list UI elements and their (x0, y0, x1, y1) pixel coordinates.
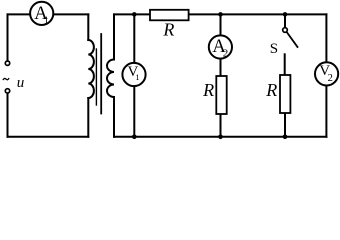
ammeter A1 (30, 2, 53, 25)
wire right-circuit top rail (114, 13, 326, 15)
svg-text:R: R (202, 80, 214, 100)
wire V2 right branch (325, 14, 327, 136)
transformer core line 1 (95, 49, 97, 105)
voltmeter V1 (122, 63, 145, 86)
transformer primary coil L1 (88, 40, 94, 98)
svg-text:R: R (265, 80, 277, 100)
wire S branch lower lead (284, 114, 286, 137)
wire S branch upper lead (284, 14, 286, 27)
wire left-loop right side upper segment (87, 14, 89, 40)
ammeter A2 (209, 35, 232, 58)
wire left-loop top rail (8, 13, 89, 15)
node dot top S (283, 12, 288, 17)
transformer core line 2 (100, 34, 102, 114)
switch S pivot (283, 28, 288, 33)
svg-text:2: 2 (223, 48, 229, 60)
wire left-loop left side upper segment (7, 14, 9, 60)
node dot bottom A2 (218, 135, 223, 140)
svg-text:1: 1 (135, 72, 139, 82)
source terminal lower (5, 89, 9, 93)
node dot bottom V1 (132, 135, 137, 140)
svg-text:2: 2 (328, 73, 333, 84)
resistor R middle (A2 branch) (216, 76, 226, 114)
wire left-loop bottom rail (8, 136, 89, 138)
svg-text:1: 1 (44, 15, 49, 26)
svg-text:u: u (17, 75, 25, 91)
switch S blade (287, 32, 298, 48)
source terminal upper (5, 61, 9, 65)
node dot top A2 (218, 12, 223, 17)
wire secondary bottom lead (113, 97, 115, 137)
wire secondary top lead (113, 14, 115, 59)
resistor R top (150, 10, 189, 20)
transformer secondary coil L2 (107, 60, 114, 98)
source tilde symbol (3, 78, 9, 80)
resistor R right (S branch) (280, 75, 290, 113)
wire right-circuit bottom rail (114, 136, 326, 138)
svg-text:S: S (270, 41, 278, 57)
node dot bottom S (283, 135, 288, 140)
wire V1 branch (133, 14, 135, 136)
voltmeter V2 (315, 62, 338, 85)
svg-text:R: R (162, 19, 174, 39)
wire S branch fixed-contact lead (284, 54, 286, 76)
wire A2 branch (220, 14, 222, 136)
node dot top V1 (132, 12, 137, 17)
wire left-loop left side lower segment (7, 93, 9, 137)
wire left-loop right side lower segment (87, 98, 89, 137)
